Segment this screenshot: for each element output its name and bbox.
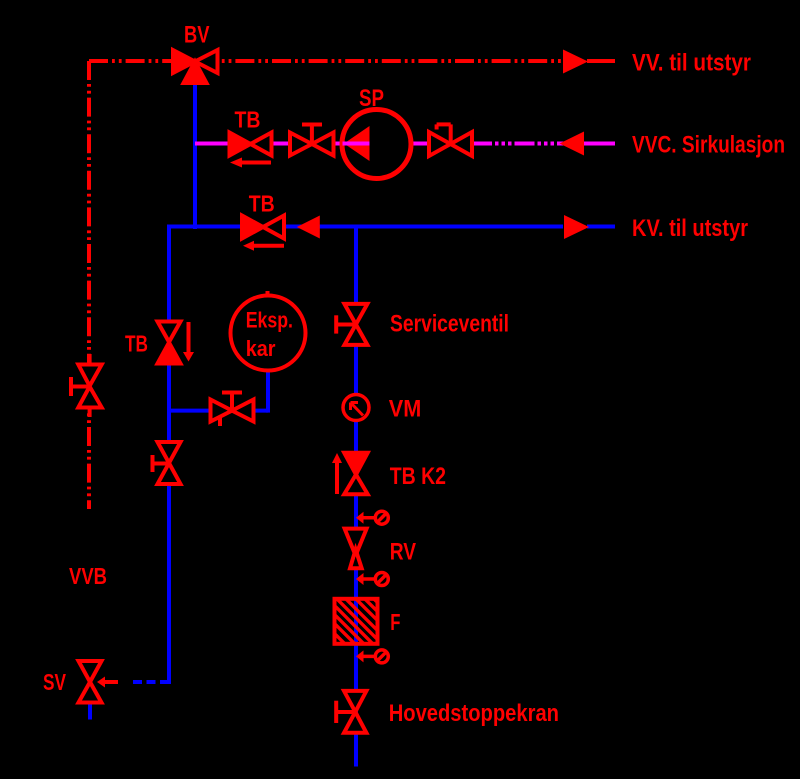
svg-text:Eksp.: Eksp. — [246, 308, 293, 333]
svg-text:VM: VM — [389, 395, 422, 422]
svg-text:VVC. Sirkulasjon: VVC. Sirkulasjon — [632, 132, 785, 159]
svg-text:RV: RV — [390, 539, 416, 566]
svg-text:KV. til utstyr: KV. til utstyr — [632, 215, 748, 242]
svg-text:Serviceventil: Serviceventil — [390, 311, 509, 338]
svg-text:TB: TB — [249, 191, 275, 217]
svg-text:kar: kar — [246, 336, 276, 361]
svg-text:VV. til utstyr: VV. til utstyr — [632, 49, 751, 76]
svg-text:Hovedstoppekran: Hovedstoppekran — [389, 700, 559, 727]
svg-text:SV: SV — [43, 669, 66, 695]
svg-text:BV: BV — [184, 22, 210, 49]
svg-text:F: F — [390, 609, 400, 635]
svg-text:TB: TB — [235, 106, 261, 132]
svg-text:VVB: VVB — [69, 563, 107, 589]
svg-text:SP: SP — [359, 85, 384, 112]
svg-text:TB K2: TB K2 — [390, 463, 446, 490]
svg-text:TB: TB — [125, 331, 148, 357]
